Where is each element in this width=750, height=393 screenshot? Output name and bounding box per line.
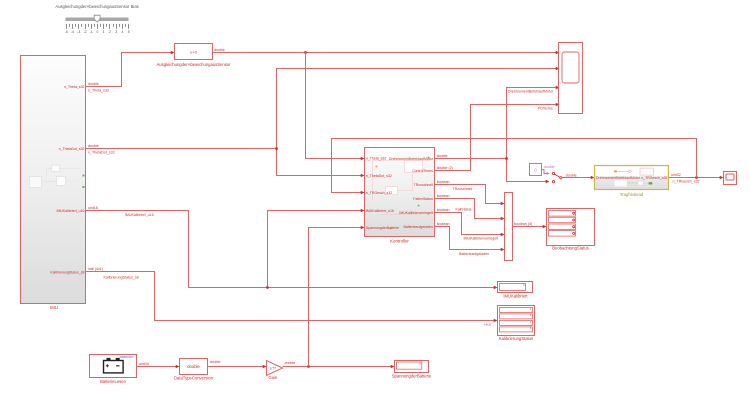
svg-text:-2: -2 — [84, 30, 87, 34]
svg-text:Kontroller: Kontroller — [390, 238, 409, 243]
svg-text:IMUKalibrierverriegelt: IMUKalibrierverriegelt — [399, 211, 433, 215]
svg-text:IMUKalibriert_u16: IMUKalibriert_u16 — [366, 209, 394, 213]
svg-text:IMUKalibriert_u16: IMUKalibriert_u16 — [56, 209, 84, 213]
svg-text:double: double — [214, 48, 225, 52]
svg-text:n_Theta_s32: n_Theta_s32 — [88, 89, 109, 93]
svg-text:4: 4 — [122, 30, 124, 34]
svg-text:boolean: boolean — [437, 194, 450, 198]
svg-text:IMUKalibriert: IMUKalibriert — [503, 294, 528, 299]
svg-text:boolean (4): boolean (4) — [514, 222, 532, 226]
svg-text:[4x1]: [4x1] — [484, 322, 491, 326]
svg-text:double: double — [88, 82, 99, 86]
svg-text:n_TRGesch_s32: n_TRGesch_s32 — [366, 191, 392, 195]
svg-text:FallStatus: FallStatus — [456, 208, 472, 212]
svg-text:ControlTerms: ControlTerms — [412, 169, 433, 173]
svg-text:boolean: boolean — [437, 180, 450, 184]
svg-text:double: double — [210, 360, 221, 364]
svg-text:SpannungderBatterie: SpannungderBatterie — [392, 374, 432, 379]
svg-text:DrehmomentBefehlaufMotor: DrehmomentBefehlaufMotor — [389, 157, 434, 161]
svg-text:n_Theta_s32: n_Theta_s32 — [366, 157, 386, 161]
svg-text:BatterieLesen: BatterieLesen — [100, 379, 127, 384]
svg-text:SpannungderBatterie: SpannungderBatterie — [366, 226, 399, 230]
svg-text:FallenStatus: FallenStatus — [413, 197, 433, 201]
svg-text:double: double — [544, 165, 555, 169]
svg-text:double: double — [437, 154, 448, 158]
svg-text:boolean: boolean — [437, 222, 450, 226]
svg-text:-1: -1 — [90, 30, 93, 34]
svg-text:double: double — [285, 361, 296, 365]
svg-text:u+0: u+0 — [190, 50, 198, 55]
svg-text:Gain: Gain — [268, 375, 278, 380]
svg-text:DrehmomentBefehlaufMotor: DrehmomentBefehlaufMotor — [596, 176, 641, 180]
svg-text:-5: -5 — [65, 30, 68, 34]
svg-text:0: 0 — [97, 30, 99, 34]
svg-text:n_TRGesch_s32: n_TRGesch_s32 — [641, 176, 667, 180]
svg-text:TRzuschnell: TRzuschnell — [414, 183, 433, 187]
svg-text:AusgleichungderAbweichungausSe: AusgleichungderAbweichungausSensor — [156, 62, 231, 67]
svg-text:IMUKalibriert_u16: IMUKalibriert_u16 — [125, 213, 154, 217]
svg-text:IMU: IMU — [50, 305, 58, 310]
svg-text:int8 (4x1): int8 (4x1) — [88, 267, 103, 271]
svg-text:DataTypeConversion: DataTypeConversion — [174, 376, 214, 381]
svg-text:BeobachtungStatus: BeobachtungStatus — [552, 246, 589, 251]
svg-text:n_ThetaDot_s32: n_ThetaDot_s32 — [366, 174, 392, 178]
svg-text:DrehmomentBefehlaufMotor: DrehmomentBefehlaufMotor — [508, 90, 554, 94]
svg-text:KalibrierungStatus_s8: KalibrierungStatus_s8 — [50, 270, 84, 274]
svg-text:Batterieaufgeladen: Batterieaufgeladen — [459, 252, 489, 256]
svg-text:uint16: uint16 — [139, 362, 149, 366]
svg-text:PDTerms: PDTerms — [538, 107, 553, 111]
svg-text:5: 5 — [128, 30, 130, 34]
svg-text:Batterieaufgeladen: Batterieaufgeladen — [404, 225, 433, 229]
svg-text:uint32: uint32 — [671, 173, 681, 177]
svg-text:n_ThetaDot_s32: n_ThetaDot_s32 — [59, 147, 85, 151]
svg-text:IMUKalibrierverriegelt: IMUKalibrierverriegelt — [464, 237, 499, 241]
svg-text:n_ThetaDot_s32: n_ThetaDot_s32 — [88, 151, 115, 155]
svg-text:n_Theta_s32: n_Theta_s32 — [64, 85, 84, 89]
svg-text:Tragheitsrad: Tragheitsrad — [620, 192, 644, 197]
svg-text:n_TRGesch_s32: n_TRGesch_s32 — [673, 180, 700, 184]
svg-text:3: 3 — [115, 30, 117, 34]
svg-text:TRzuschnell: TRzuschnell — [453, 187, 473, 191]
svg-text:-3: -3 — [77, 30, 80, 34]
svg-text:uint16: uint16 — [88, 206, 98, 210]
svg-text:double: double — [566, 173, 577, 177]
svg-text:boolean: boolean — [437, 208, 450, 212]
svg-text:1/77: 1/77 — [270, 367, 277, 371]
svg-text:ARDUINO: ARDUINO — [119, 355, 135, 359]
svg-text:2: 2 — [109, 30, 111, 34]
svg-text:KalibrierungStatus: KalibrierungStatus — [499, 336, 533, 341]
svg-text:double (2): double (2) — [437, 166, 453, 170]
svg-text:AusgleichungderAbweichungausSe: AusgleichungderAbweichungausSensor Bias — [55, 4, 138, 9]
svg-text:-4: -4 — [71, 30, 74, 34]
svg-text:KalibrierungStatus_s8: KalibrierungStatus_s8 — [104, 276, 139, 280]
svg-text:1: 1 — [103, 30, 105, 34]
svg-text:double: double — [187, 364, 200, 369]
svg-text:double: double — [88, 144, 99, 148]
